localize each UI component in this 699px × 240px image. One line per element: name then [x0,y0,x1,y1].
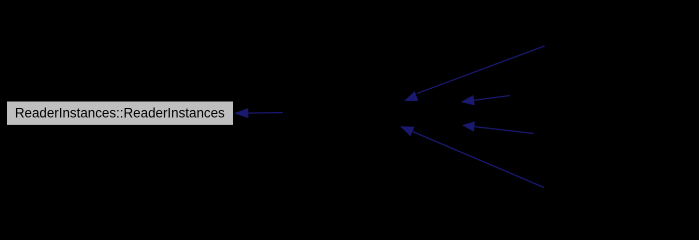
node ReaderInstances::ReaderInstances (current node, grey) [7,101,234,125]
edge arrow 3: mid-right hidden node -> middle node (short, slight down slope) [461,95,510,105]
edge arrow 2: top-right hidden node -> middle node (long diagonal down-left) [404,46,545,101]
edge arrow 5: bottom-right hidden node -> middle node (long diagonal up-left) [400,126,544,187]
edge arrow 1: hidden middle node -> ReaderInstances::ReaderInstances [234,108,283,118]
edge arrow 4: mid-right hidden node -> middle node (short, slight up slope) [462,121,534,133]
svg-text:ReaderInstances::ReaderInstanc: ReaderInstances::ReaderInstances [15,105,225,120]
